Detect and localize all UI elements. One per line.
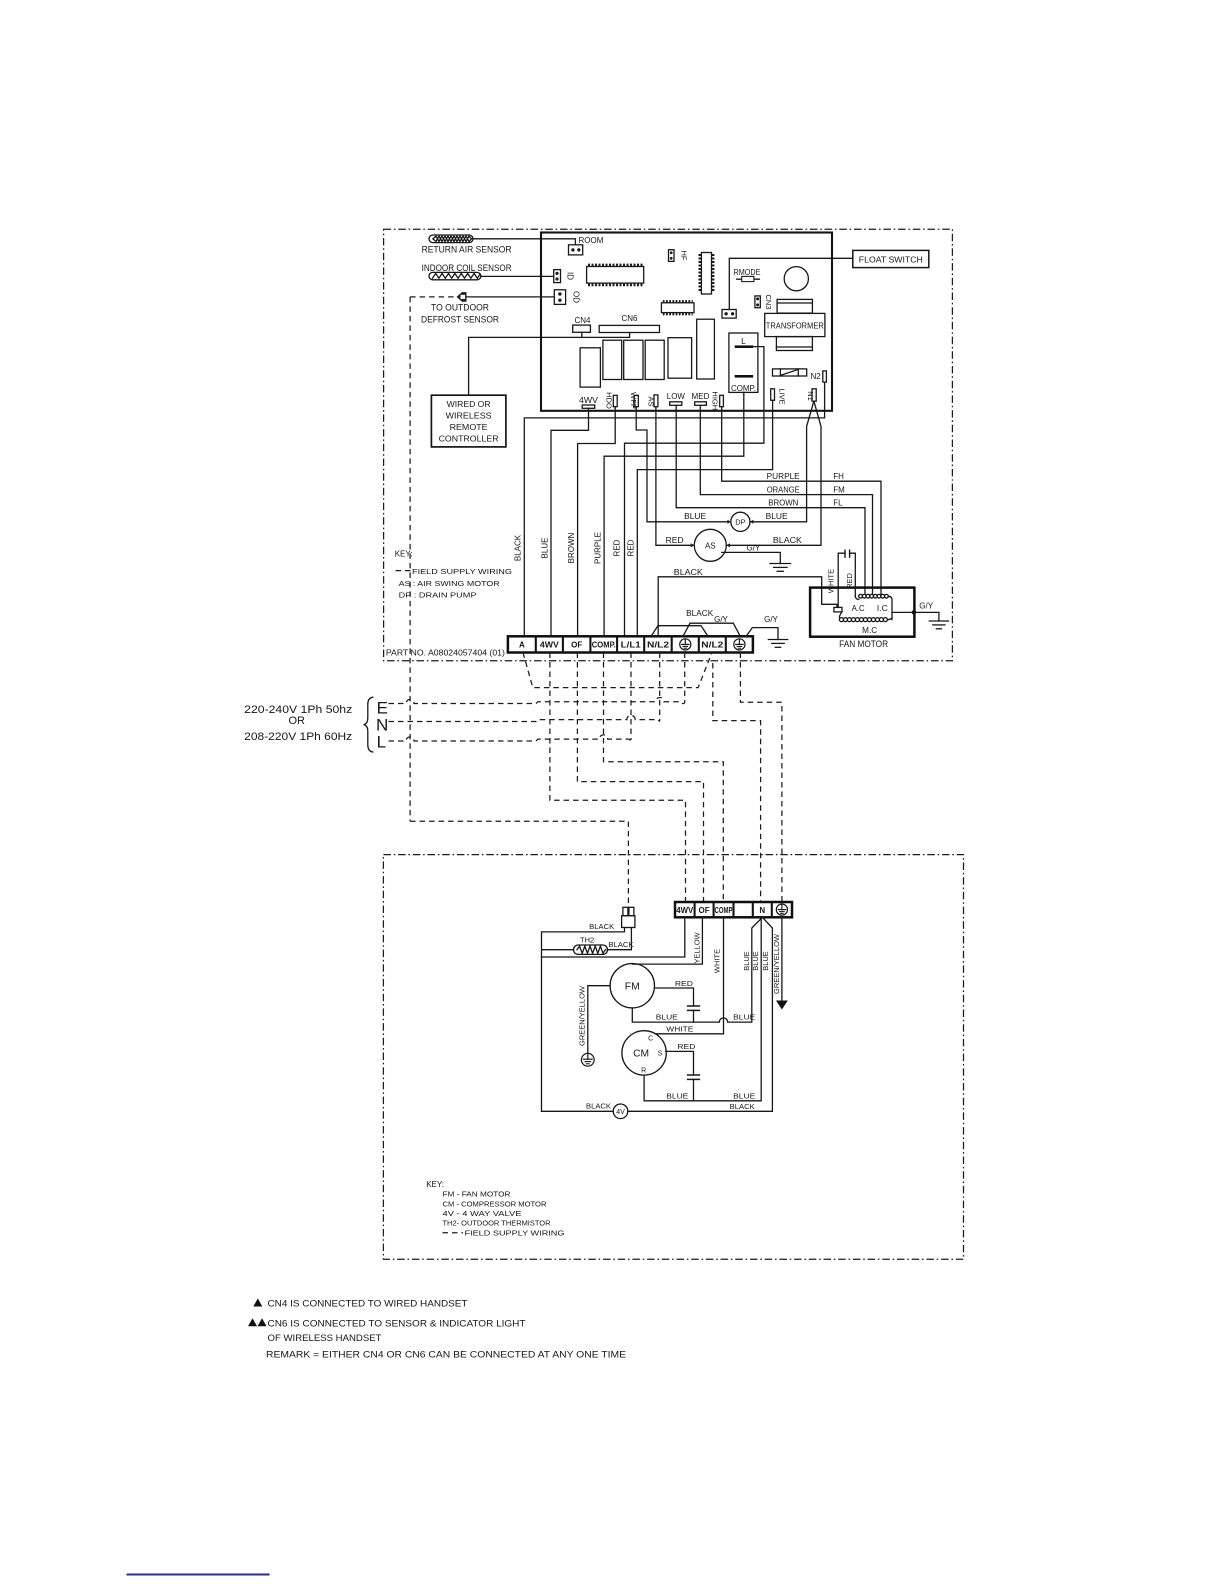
svg-text:CN4 IS CONNECTED TO WIRED HAND: CN4 IS CONNECTED TO WIRED HANDSET (268, 1299, 468, 1310)
svg-text:CN4: CN4 (574, 316, 591, 325)
wire defrost plug to OD (467, 296, 554, 298)
connector ID (554, 270, 561, 283)
svg-text:FM - FAN MOTOR: FM - FAN MOTOR (443, 1190, 512, 1199)
svg-text:REMOTE: REMOTE (450, 422, 488, 432)
IC U2 vertical (700, 253, 713, 295)
svg-text:BLUE: BLUE (684, 512, 706, 521)
svg-text:GREEN/YELLOW: GREEN/YELLOW (577, 985, 586, 1046)
pin N2 (823, 371, 827, 382)
connector HF (669, 250, 675, 262)
return air sensor symbol (429, 235, 473, 243)
fan motor A.C winding coil (855, 596, 858, 600)
svg-text:G/Y: G/Y (764, 615, 778, 624)
connector CN4 (573, 325, 591, 332)
wire float switch to CN connector (729, 258, 853, 309)
drain pump DP (727, 512, 753, 531)
pad 4WV (582, 405, 595, 408)
svg-text:4WV: 4WV (676, 906, 694, 915)
fan motor tab terminal (834, 607, 842, 612)
svg-text:BLUE: BLUE (766, 512, 788, 521)
wire G/Y AS to ground (722, 552, 781, 563)
brace (364, 697, 373, 752)
pad MED (695, 402, 707, 406)
svg-text:KEY:: KEY: (426, 1180, 444, 1189)
svg-text:WHITE: WHITE (713, 949, 722, 973)
fan motor box (810, 588, 914, 637)
svg-text:N: N (759, 906, 765, 915)
svg-text:FM: FM (625, 981, 640, 992)
svg-text:OF WIRELESS HANDSET: OF WIRELESS HANDSET (268, 1333, 382, 1344)
svg-text:COMP.: COMP. (592, 640, 616, 649)
connector OD (554, 290, 565, 305)
wire G/Y fan motor to ground (892, 610, 939, 621)
footer rule (127, 1574, 270, 1576)
capacitor C3 compressor (688, 1075, 700, 1101)
svg-text:INDOOR COIL SENSOR: INDOOR COIL SENSOR (422, 263, 512, 273)
svg-text:N1: N1 (806, 391, 815, 401)
svg-text:OF: OF (699, 906, 710, 915)
wire BLACK TH2 to plug (608, 928, 632, 950)
svg-text:BLACK: BLACK (773, 536, 803, 545)
compressor relay box (729, 333, 758, 392)
svg-text:TH2- OUTDOOR THERMISTOR: TH2- OUTDOOR THERMISTOR (443, 1219, 552, 1228)
to outdoor defrost sensor dashed lead (410, 296, 454, 298)
svg-text:RED: RED (666, 536, 684, 545)
svg-text:GREEN/YELLOW: GREEN/YELLOW (772, 933, 781, 994)
thermistor TH2 (574, 945, 608, 954)
svg-text:FM: FM (833, 486, 845, 495)
relay RY6 (697, 319, 715, 379)
svg-text:AS : AIR SWING MOTOR: AS : AIR SWING MOTOR (399, 579, 501, 588)
svg-text:ORANGE: ORANGE (767, 486, 800, 495)
transformer T1 (765, 299, 825, 350)
svg-text:RETURN AIR SENSOR: RETURN AIR SENSOR (422, 244, 512, 254)
svg-text:FLOAT SWITCH: FLOAT SWITCH (859, 254, 923, 264)
svg-text:4V - 4 WAY VALVE: 4V - 4 WAY VALVE (443, 1209, 522, 1218)
svg-text:BLUE: BLUE (666, 1091, 688, 1100)
wire BLACK N/L2 to fan motor common (658, 577, 837, 637)
svg-text:WIRED OR: WIRED OR (447, 399, 491, 409)
float switch box (853, 250, 929, 267)
svg-text:COMP.: COMP. (731, 384, 756, 393)
svg-text:A: A (519, 640, 525, 649)
TH2 plug connector (622, 907, 635, 927)
note CN4 (253, 1299, 262, 1307)
svg-text:BLACK: BLACK (514, 534, 523, 561)
svg-text:WIRELESS: WIRELESS (446, 411, 492, 421)
compressor motor CM (622, 1031, 666, 1075)
wire BLACK N2 to terminal A (524, 382, 824, 636)
supply N line (389, 715, 660, 721)
svg-text:OF: OF (571, 640, 582, 649)
outdoor terminal strip (675, 902, 792, 917)
supply L line (389, 735, 632, 741)
svg-text:LOW: LOW (667, 392, 685, 401)
field wire OF down (577, 653, 703, 903)
earth arrow (776, 1001, 788, 1010)
svg-text:HF: HF (680, 251, 689, 261)
wire BROWN LOW to fan FL (676, 405, 865, 594)
svg-text:FL: FL (833, 499, 843, 508)
svg-text:4WV: 4WV (579, 396, 599, 405)
svg-text:TRANSFORMER: TRANSFORMER (766, 320, 824, 330)
jumper BLACK N/L2 to N/L2 (651, 626, 708, 637)
svg-text:HDO: HDO (605, 392, 614, 409)
wire indoor coil sensor to ID (481, 275, 554, 277)
svg-text:DP: DP (735, 518, 745, 527)
wire BLUE WFP to drain pump (636, 407, 729, 522)
svg-text:WHITE: WHITE (666, 1024, 693, 1033)
svg-text:FIELD SUPPLY WIRING: FIELD SUPPLY WIRING (412, 567, 512, 576)
capacitor C2 outdoor fan (688, 1006, 700, 1022)
ground chassis fan motor (929, 621, 948, 629)
field wire earth1 down (684, 653, 686, 704)
svg-text:COMP: COMP (715, 906, 733, 915)
svg-text:CM - COMPRESSOR MOTOR: CM - COMPRESSOR MOTOR (443, 1199, 548, 1208)
svg-text:BLUE: BLUE (733, 1091, 755, 1100)
field wire 4WV down (550, 653, 686, 903)
svg-text:FAN MOTOR: FAN MOTOR (839, 639, 888, 649)
svg-text:FH: FH (833, 472, 844, 481)
pin WFP (634, 395, 638, 406)
svg-text:BLACK: BLACK (686, 609, 714, 618)
L contact bar (735, 345, 754, 348)
svg-text:REMARK = EITHER CN4 OR CN6 CAN: REMARK = EITHER CN4 OR CN6 CAN BE CONNEC… (266, 1350, 626, 1361)
wire ORANGE MED to fan FM (700, 405, 872, 594)
svg-text:YELLOW: YELLOW (693, 931, 702, 963)
buzzer BZ1 (784, 267, 808, 291)
svg-text:ID: ID (566, 272, 575, 280)
terminal earth symbol 1 (680, 639, 691, 650)
svg-text:CN6: CN6 (621, 314, 638, 323)
wire BLUE DP to N1 fork (750, 401, 814, 522)
air swing motor AS (691, 529, 730, 561)
svg-text:BLUE: BLUE (541, 538, 550, 559)
svg-text:ROOM: ROOM (579, 236, 604, 245)
field wire L/L1 down (630, 653, 632, 741)
pin AS (654, 395, 658, 407)
svg-text:BLUE: BLUE (656, 1013, 678, 1022)
ground chassis AS (770, 564, 791, 572)
relay RY4 (645, 340, 664, 379)
svg-text:BLACK: BLACK (730, 1102, 755, 1111)
svg-text:CN6 IS CONNECTED TO SENSOR & I: CN6 IS CONNECTED TO SENSOR & INDICATOR L… (268, 1318, 526, 1329)
indoor unit enclosure box (384, 229, 953, 661)
outdoor unit enclosure box (383, 855, 963, 1260)
winding common junction wire (887, 596, 892, 619)
svg-text:M.C: M.C (862, 626, 877, 635)
svg-text:R: R (641, 1067, 646, 1074)
field wire earth2 to outdoor earth (740, 653, 782, 903)
wire GREEN/YELLOW outdoor earth (781, 917, 783, 1000)
svg-text:G/Y: G/Y (747, 543, 761, 552)
svg-text:G/Y: G/Y (919, 602, 933, 611)
fan motor M.C winding coil (839, 612, 842, 618)
wire return air sensor to ROOM (473, 239, 575, 245)
svg-text:4V: 4V (616, 1109, 625, 1116)
wire BROWN HDO to terminal OF (578, 407, 616, 637)
pin HDO (613, 395, 617, 406)
COMP contact bar (735, 375, 754, 378)
remote controller label (439, 399, 499, 443)
wire PURPLE comp relay to terminal COMP (604, 392, 744, 636)
svg-text:FIELD SUPPLY WIRING: FIELD SUPPLY WIRING (465, 1228, 565, 1237)
connector CN3 (755, 296, 760, 308)
svg-text:4WV: 4WV (540, 640, 560, 649)
outdoor fan motor FM (610, 964, 654, 1008)
pin HIGH (720, 395, 724, 406)
svg-text:PART NO. A08024057404 (01): PART NO. A08024057404 (01) (386, 648, 505, 657)
svg-text:S: S (658, 1050, 663, 1057)
svg-text:BLACK: BLACK (586, 1102, 611, 1111)
svg-text:OD: OD (572, 291, 581, 303)
relay RY1 (580, 348, 600, 387)
wire remote controller to CN4/CN6 bus (469, 332, 630, 395)
svg-text:208-220V 1Ph 60Hz: 208-220V 1Ph 60Hz (244, 731, 352, 743)
field wire terminal A to N/L2 jumper (523, 653, 712, 688)
svg-text:N2: N2 (811, 372, 822, 381)
svg-text:CONTROLLER: CONTROLLER (439, 433, 499, 443)
svg-text:BROWN: BROWN (567, 532, 576, 563)
svg-text:A.C: A.C (852, 604, 865, 613)
wire G/Y earth2 to chassis (746, 628, 778, 640)
svg-text:L: L (377, 733, 386, 752)
ground symbol circle FM (581, 1053, 594, 1066)
connector ROOM (569, 245, 583, 255)
wire BLUE CM R to N (644, 917, 761, 1101)
svg-text:CN3: CN3 (764, 294, 773, 309)
svg-text:HIGH: HIGH (711, 391, 720, 410)
svg-text:CM: CM (633, 1049, 649, 1060)
4-way valve solenoid 4V (613, 1104, 628, 1119)
wire BLACK plug to TH2 (542, 928, 625, 958)
svg-text:BLUE: BLUE (751, 951, 760, 971)
svg-text:L: L (741, 336, 746, 346)
svg-text:OR: OR (289, 715, 306, 727)
pad LOW (670, 402, 682, 406)
relay RY2 (603, 340, 622, 379)
wire YELLOW OF terminal to fan motor FM (632, 917, 702, 964)
svg-text:C: C (648, 1035, 653, 1042)
field wire COMP down (604, 653, 724, 903)
pin LIVE (771, 389, 775, 401)
capacitor C1 fan (838, 550, 855, 607)
svg-text:I.C: I.C (877, 604, 888, 613)
svg-text:N/L2: N/L2 (701, 640, 724, 649)
wire RED CM S to capacitor (666, 1051, 694, 1075)
svg-text:N/L2: N/L2 (647, 640, 670, 649)
defrost sensor plug symbol (457, 292, 467, 302)
wire BLUE 4WV pad to terminal 4WV (551, 408, 589, 636)
wire RED AS pin to air swing motor (656, 407, 694, 546)
wire PURPLE HIGH to fan FH (722, 407, 881, 594)
wire GREEN/YELLOW FM to ground (588, 986, 610, 1054)
field wire defrost vertical run (409, 297, 411, 821)
note CN6 (248, 1318, 257, 1326)
wire 4WV terminal to 4-way valve (542, 917, 685, 1111)
svg-text:BROWN: BROWN (768, 499, 798, 508)
connector CN6 (599, 325, 659, 332)
svg-text:RED: RED (613, 539, 622, 556)
fuse F1 (773, 369, 807, 376)
wire RED FM to capacitor (655, 988, 694, 1006)
indoor coil sensor symbol (429, 272, 481, 279)
key field supply wiring outdoor (443, 1232, 464, 1234)
svg-text:RED: RED (627, 539, 636, 556)
svg-text:AS: AS (705, 541, 716, 550)
wire BLACK 4-way valve row (542, 917, 773, 1111)
indoor terminal strip (508, 636, 753, 652)
supply E line (389, 698, 685, 704)
svg-text:TH2: TH2 (580, 936, 594, 945)
svg-text:BLUE: BLUE (761, 951, 770, 971)
relay RY5 (668, 338, 692, 379)
field wire defrost to outdoor TH2 (410, 821, 628, 907)
svg-text:TO OUTDOOR: TO OUTDOOR (431, 302, 489, 312)
IC U1 (587, 265, 644, 285)
wire RED LIVE to terminal L/L1 (637, 400, 772, 636)
wired or wireless remote controller box (431, 395, 506, 447)
svg-text:PURPLE: PURPLE (767, 472, 800, 481)
wire BLUE FM bottom to N (632, 917, 762, 1022)
svg-text:RED: RED (677, 1042, 696, 1051)
PCB board outline (541, 233, 832, 411)
svg-text:BLACK: BLACK (589, 922, 614, 931)
pin N1 (812, 389, 816, 401)
field wire N/L2-2 to outdoor N (713, 663, 761, 902)
wire WHITE COMP terminal to CM (655, 917, 723, 1034)
outdoor terminal earth symbol (776, 904, 787, 915)
svg-text:BLUE: BLUE (733, 1013, 755, 1022)
svg-text:BLACK: BLACK (674, 568, 704, 577)
svg-text:BLACK: BLACK (609, 940, 634, 949)
svg-text:DEFROST SENSOR: DEFROST SENSOR (421, 315, 499, 325)
wire RED relay L bar to terminal L/L1 (625, 347, 764, 637)
field wire N/L2 down (659, 653, 661, 722)
svg-text:L/L1: L/L1 (621, 640, 642, 649)
connector CN5 2pin (722, 310, 736, 319)
svg-text:MED: MED (692, 392, 710, 401)
svg-text:RED: RED (675, 979, 694, 988)
IC U3 (661, 301, 694, 314)
jumper G/Y earth to earth (683, 623, 740, 636)
svg-text:PURPLE: PURPLE (594, 532, 603, 564)
svg-text:G/Y: G/Y (714, 615, 728, 624)
terminal earth symbol 2 (734, 639, 745, 650)
ground chassis strip (768, 640, 787, 648)
resistor RMODE (737, 276, 760, 281)
svg-text:BLUE: BLUE (742, 951, 751, 971)
relay RY3 (624, 340, 643, 379)
svg-text:WHITE: WHITE (827, 569, 836, 593)
wire BLACK AS to N1 fork (726, 401, 821, 545)
key field supply wiring (indoor) (396, 570, 412, 572)
svg-text:LIVE: LIVE (778, 388, 787, 404)
